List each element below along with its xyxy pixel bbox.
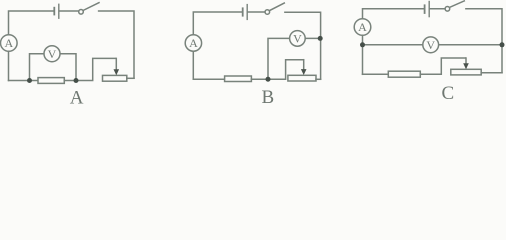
svg-text:B: B: [261, 87, 274, 105]
svg-text:A: A: [189, 36, 198, 50]
svg-text:V: V: [48, 47, 57, 61]
svg-text:A: A: [358, 20, 367, 34]
svg-text:V: V: [426, 38, 435, 52]
svg-text:V: V: [293, 32, 302, 46]
svg-text:A: A: [4, 36, 13, 50]
svg-text:C: C: [441, 83, 454, 104]
svg-text:A: A: [70, 87, 84, 105]
